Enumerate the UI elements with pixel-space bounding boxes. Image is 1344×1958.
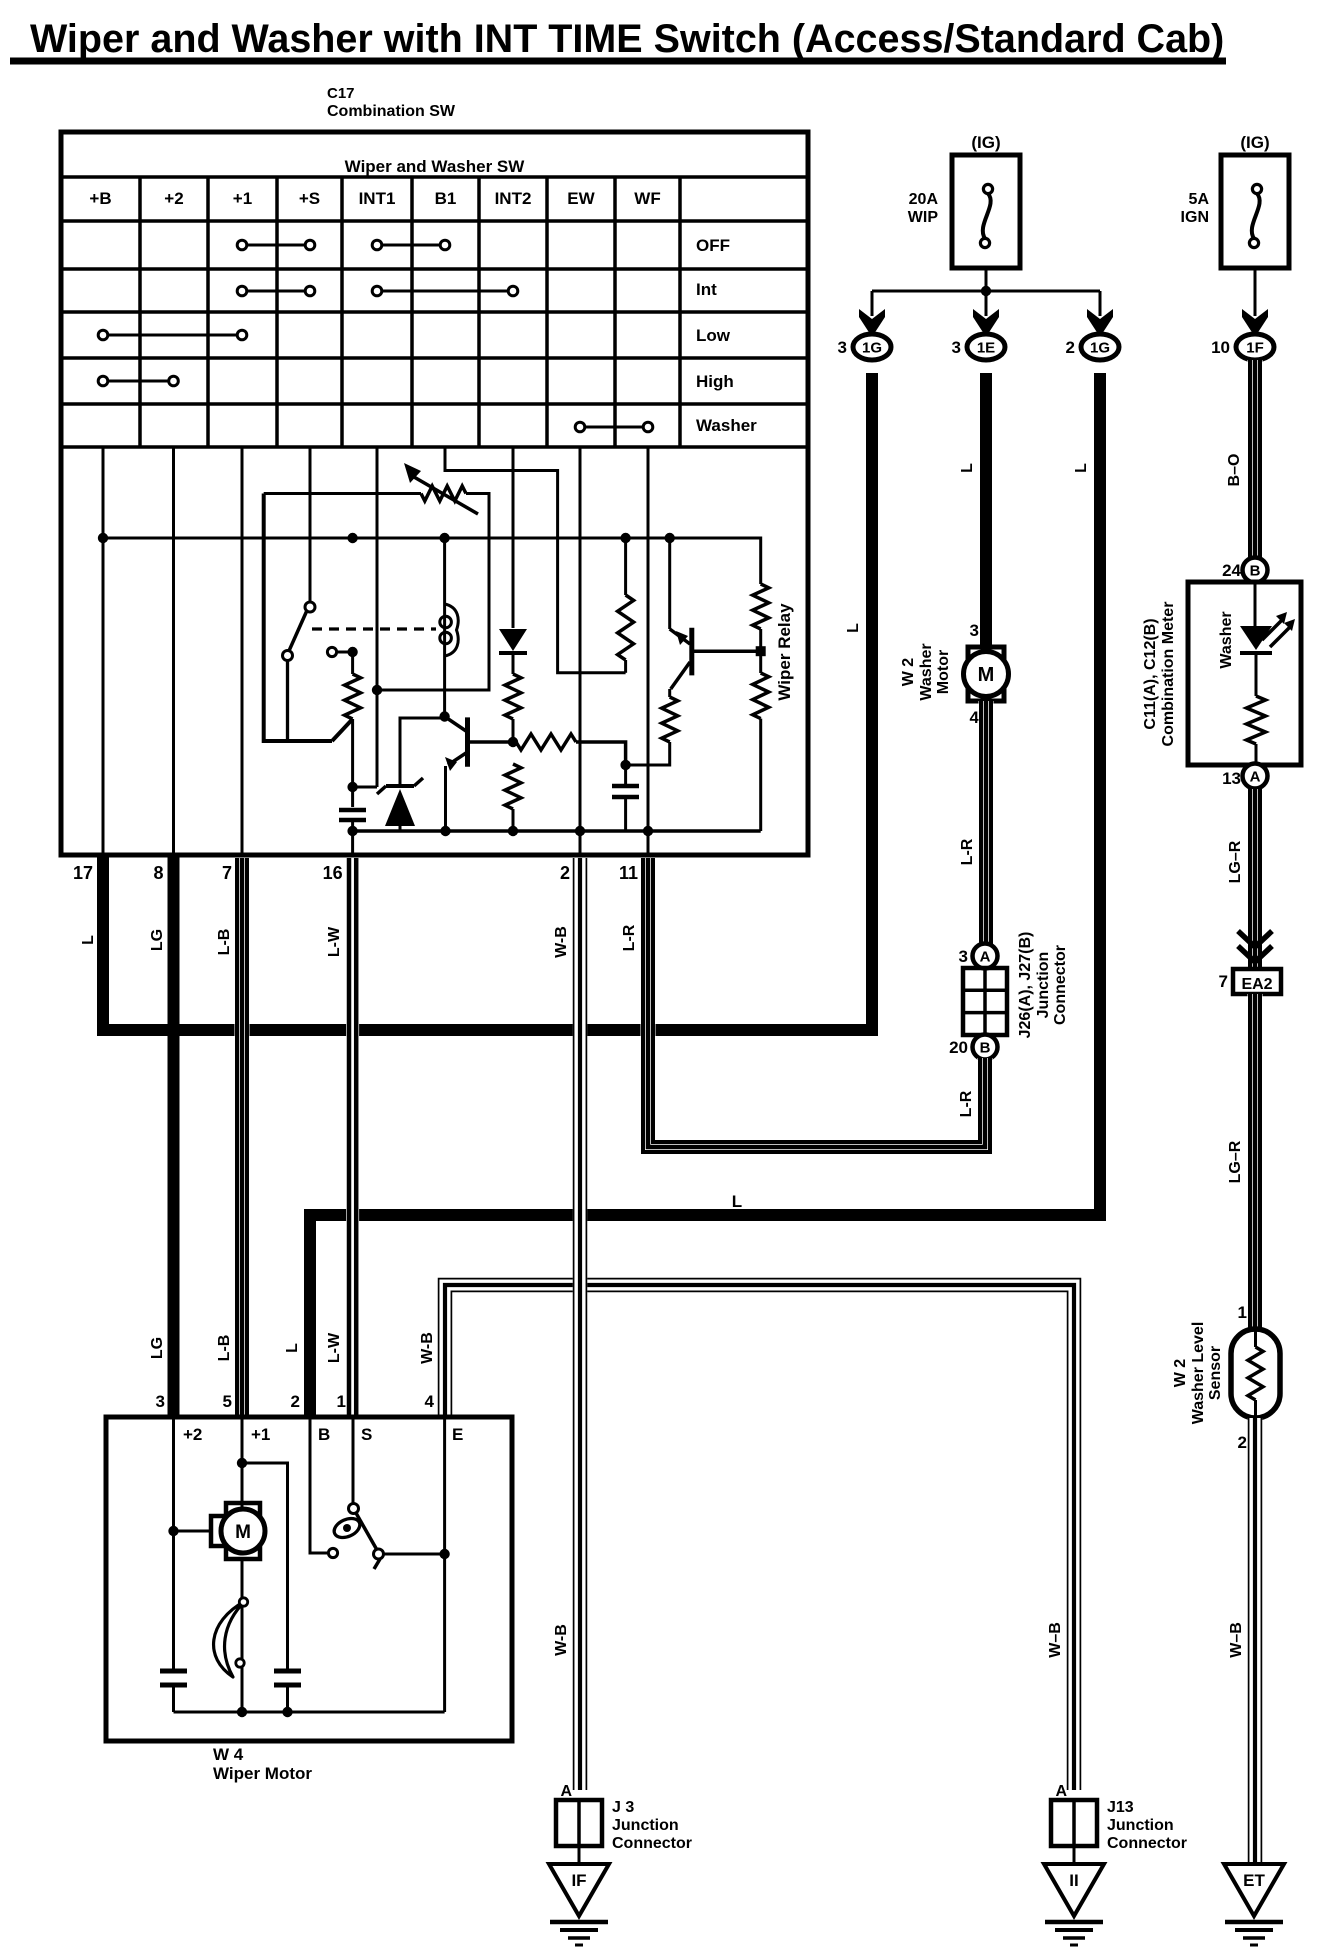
potentiometer VR1 right lead to INT1	[377, 494, 489, 691]
park switch pivot	[349, 1504, 359, 1514]
node bus junction +B	[98, 533, 108, 543]
svg-text:Wiper Relay: Wiper Relay	[775, 603, 794, 701]
svg-text:A: A	[1055, 1783, 1067, 1800]
table column headers	[89, 189, 660, 208]
svg-text:E: E	[452, 1425, 463, 1444]
ground ET	[1224, 1864, 1284, 1945]
svg-text:1: 1	[337, 1392, 346, 1411]
contact link Int INT1 to INT2	[372, 286, 518, 296]
wiper motor W4 box	[106, 1417, 512, 1741]
node bus junction coil line	[439, 533, 449, 543]
combination meter box	[1188, 582, 1301, 765]
svg-text:L: L	[845, 623, 862, 633]
terminal labels wiper motor	[183, 1425, 463, 1444]
svg-text:Int: Int	[696, 280, 717, 299]
svg-text:LG–R: LG–R	[1227, 1140, 1244, 1183]
wire lower link diagonal	[332, 719, 353, 741]
label J3 Junction Connector	[612, 1799, 692, 1852]
relay coil K1 lead upper	[443, 538, 446, 604]
node R4 bottom	[508, 826, 518, 836]
junction connector J3	[556, 1800, 602, 1846]
resistor R7 wiper relay upper	[753, 584, 769, 629]
wire 1F to B	[1248, 360, 1263, 559]
svg-text:INT2: INT2	[495, 189, 532, 208]
svg-text:Washer: Washer	[1218, 611, 1235, 668]
label J13 Junction Connector	[1107, 1799, 1187, 1852]
wire diode to R2b	[512, 651, 515, 674]
svg-text:L-R: L-R	[958, 1090, 975, 1117]
wire L pin17 thick run	[103, 373, 872, 1030]
wire EW column pin 2	[579, 447, 582, 855]
svg-text:8: 8	[153, 863, 163, 883]
resistor R2 pin16 upper	[345, 674, 361, 719]
title underline rule	[10, 58, 1226, 65]
svg-text:W-B: W-B	[553, 1624, 570, 1656]
connector 24 B	[1243, 558, 1268, 583]
wire fixed contact stub	[337, 651, 353, 654]
svg-text:C17: C17	[327, 85, 355, 102]
svg-text:W–B: W–B	[1228, 1622, 1245, 1658]
wire WF column pin 11	[647, 447, 650, 855]
wire Q1 base to R3	[470, 740, 513, 744]
svg-text:Low: Low	[696, 326, 731, 345]
wire R8 to bottom bus	[759, 719, 762, 831]
capacitor C1	[339, 810, 366, 831]
svg-text:Junction: Junction	[1035, 952, 1052, 1019]
svg-text:4: 4	[425, 1392, 435, 1411]
svg-text:1: 1	[1238, 1303, 1247, 1322]
svg-text:L: L	[1073, 463, 1090, 473]
svg-text:10: 10	[1211, 338, 1230, 357]
node INT1 pot junction	[372, 685, 382, 695]
wire bottom bus	[353, 829, 761, 833]
svg-text:+2: +2	[164, 189, 183, 208]
wire EA2 to sensor	[1248, 994, 1263, 1329]
svg-text:5: 5	[223, 1392, 232, 1411]
transistor Q1	[445, 717, 468, 832]
wire Q2 emitter to R6	[668, 689, 671, 697]
mechanical link dashed line	[312, 627, 436, 630]
svg-text:2: 2	[560, 863, 570, 883]
svg-text:L-B: L-B	[216, 929, 233, 956]
relay coil K1	[440, 604, 458, 656]
wire L-W pin16 double	[346, 858, 359, 1417]
arrow to 1G b	[1087, 298, 1113, 337]
wire W-B pin2	[573, 858, 587, 1790]
switch SW1 moving contact	[283, 651, 293, 661]
svg-text:A: A	[1250, 769, 1261, 786]
contact link Washer EW to WF	[575, 422, 653, 432]
wire sensor to ET ground	[1248, 1418, 1262, 1862]
washer LED indicator	[1240, 612, 1295, 653]
wire B1 column jog	[445, 447, 626, 673]
wire A to EA2	[1248, 789, 1263, 971]
svg-text:20A: 20A	[909, 191, 939, 208]
contact link OFF INT1 to B1	[372, 240, 450, 250]
svg-text:IGN: IGN	[1181, 209, 1209, 226]
svg-text:7: 7	[1219, 972, 1228, 991]
wire LG pin8 thick	[168, 855, 180, 1417]
svg-text:J13: J13	[1107, 1799, 1134, 1816]
label W 2 Washer Motor	[900, 643, 952, 700]
svg-text:20: 20	[949, 1038, 968, 1057]
svg-text:L-R: L-R	[959, 838, 976, 865]
svg-text:W-B: W-B	[419, 1332, 436, 1364]
svg-text:1G: 1G	[862, 340, 882, 357]
svg-text:W 2: W 2	[900, 658, 917, 687]
washer level sensor W2	[1231, 1329, 1280, 1418]
capacitor C3	[160, 1671, 187, 1712]
combination switch outer box	[61, 132, 808, 855]
svg-text:Combination SW: Combination SW	[327, 103, 456, 120]
resistor R3 horizontal	[516, 734, 576, 750]
arrow double chevron EA2	[1238, 931, 1272, 962]
wire S internal	[352, 1417, 355, 1504]
wire junction to R6 bottom	[626, 742, 670, 765]
ground IF	[549, 1864, 609, 1945]
svg-text:LG: LG	[149, 1337, 166, 1359]
svg-text:L-W: L-W	[326, 1332, 343, 1363]
pin numbers 17 8 7 16 2 11	[73, 863, 638, 883]
svg-text:Wiper and Washer SW: Wiper and Washer SW	[345, 157, 526, 176]
svg-text:17: 17	[73, 863, 93, 883]
contact B park switch	[328, 1548, 337, 1557]
wire Q2 base	[694, 649, 761, 653]
svg-text:EA2: EA2	[1241, 976, 1272, 993]
resistor in meter	[1247, 696, 1266, 744]
svg-text:EW: EW	[567, 189, 595, 208]
node +1 branch	[237, 1458, 247, 1468]
wire J3 to ground	[578, 1846, 581, 1864]
svg-text:24: 24	[1222, 561, 1241, 580]
svg-text:+B: +B	[89, 189, 111, 208]
label W 2 Washer Level Sensor	[1172, 1322, 1224, 1425]
contact link OFF +1 to +S	[237, 240, 315, 250]
svg-text:7: 7	[222, 863, 232, 883]
junction connector J26 J27	[963, 944, 1007, 1060]
node R7 R8 base junction	[756, 646, 766, 656]
svg-text:WF: WF	[634, 189, 660, 208]
svg-text:L-B: L-B	[216, 1335, 233, 1362]
svg-text:Motor: Motor	[935, 650, 952, 694]
svg-text:L: L	[80, 935, 97, 945]
svg-text:J26(A), J27(B): J26(A), J27(B)	[1017, 932, 1034, 1039]
wire R5 leads	[624, 538, 627, 673]
washer motor W2 M	[964, 647, 1009, 701]
node R3 left junction	[508, 737, 518, 747]
node bottom bus EW	[575, 826, 585, 836]
wire lower link left	[264, 494, 332, 742]
svg-text:3: 3	[838, 338, 847, 357]
connector EA2	[1233, 969, 1281, 994]
svg-text:3: 3	[970, 621, 979, 640]
svg-text:LG: LG	[149, 929, 166, 951]
wire 5A to 1F	[1254, 268, 1257, 306]
connector 3 1G	[853, 334, 891, 360]
wire B internal	[310, 1417, 328, 1553]
label W 4 Wiper Motor	[213, 1745, 312, 1783]
contact link High +B to +2	[98, 376, 178, 386]
svg-text:W-B: W-B	[553, 926, 570, 958]
svg-text:+1: +1	[251, 1425, 270, 1444]
wire bus to R7	[670, 538, 761, 584]
node +2 motor link	[168, 1526, 178, 1536]
wire INT1 column	[376, 447, 379, 787]
wire +S column to switch pivot	[309, 447, 312, 603]
svg-text:S: S	[361, 1425, 372, 1444]
arrow to 1E	[973, 298, 999, 337]
wire labels lower row	[149, 1332, 436, 1364]
arrow to 1G a	[859, 298, 885, 337]
label 5A IGN	[1181, 191, 1210, 226]
wire pin16 lower	[351, 719, 354, 807]
wire +2 to motor	[174, 1530, 212, 1533]
wire +2 internal	[172, 1417, 175, 1669]
wire thick L to wiper motor B	[310, 373, 1100, 1417]
node bus junction resistor R5	[620, 533, 630, 543]
svg-text:B: B	[980, 1040, 991, 1057]
svg-text:3: 3	[156, 1392, 165, 1411]
label C11 C12 Combination Meter	[1142, 602, 1177, 747]
wire labels upper row	[80, 924, 638, 958]
svg-text:4: 4	[970, 708, 980, 727]
svg-text:Sensor: Sensor	[1207, 1346, 1224, 1400]
wire pin16 exit	[351, 831, 354, 855]
resistor R8 wiper relay lower	[753, 673, 769, 719]
svg-text:A: A	[560, 1783, 572, 1800]
svg-text:1E: 1E	[977, 340, 995, 357]
svg-text:2: 2	[1238, 1433, 1247, 1452]
svg-text:WIP: WIP	[908, 209, 939, 226]
svg-text:LG–R: LG–R	[1227, 840, 1244, 883]
svg-text:Washer Level: Washer Level	[1190, 1322, 1207, 1425]
switch SW1 fixed contact	[327, 647, 336, 656]
wire E internal	[443, 1417, 446, 1712]
wire 1E to washer motor	[980, 373, 992, 648]
node E junction	[439, 1549, 449, 1559]
svg-text:B: B	[1250, 563, 1261, 580]
switch SW1 pivot	[305, 602, 315, 612]
svg-text:M: M	[978, 664, 995, 686]
junction connector J13	[1051, 1800, 1097, 1846]
node pin16 switch junction	[347, 647, 357, 657]
wire W-B wiper motor E run	[439, 1279, 1081, 1790]
wire pin16 mid	[351, 652, 354, 674]
wire INT2 column	[512, 447, 515, 628]
wire fuse output split	[872, 268, 1100, 306]
label C17 / Combination SW	[327, 85, 456, 120]
svg-text:C11(A), C12(B): C11(A), C12(B)	[1142, 618, 1159, 729]
svg-text:INT1: INT1	[359, 189, 396, 208]
wire resistor to A	[1255, 744, 1258, 767]
parking cam crescent	[214, 1598, 248, 1677]
svg-text:Wiper Motor: Wiper Motor	[213, 1764, 312, 1783]
svg-text:W–B: W–B	[1047, 1622, 1064, 1658]
svg-text:Combination Meter: Combination Meter	[1160, 602, 1177, 747]
svg-text:L-R: L-R	[621, 924, 638, 951]
wire +2 column pin 8	[172, 447, 175, 855]
pin numbers wiper motor	[156, 1392, 435, 1411]
svg-text:(IG): (IG)	[1240, 133, 1269, 152]
resistor R4	[505, 764, 521, 809]
svg-text:3: 3	[959, 947, 968, 966]
table grid lines	[61, 177, 808, 447]
park switch cam oval	[331, 1515, 363, 1542]
wire washer motor to A	[979, 701, 994, 944]
wire L-B pin7 triple	[235, 858, 250, 1417]
svg-text:W 2: W 2	[1172, 1359, 1189, 1388]
node pin16 bottom bus	[347, 826, 357, 836]
wire J13 to ground	[1073, 1846, 1076, 1864]
svg-text:Wiper and Washer with INT TIME: Wiper and Washer with INT TIME Switch (A…	[30, 17, 1224, 61]
wire L-R pin11 triple run	[643, 858, 990, 1152]
svg-text:Washer: Washer	[918, 643, 935, 700]
node bottom bus WF	[643, 826, 653, 836]
svg-text:Connector: Connector	[1052, 945, 1069, 1025]
fuse 20A WIP	[952, 155, 1020, 268]
wire motor to cam	[241, 1559, 244, 1712]
wire bottom bus W4	[174, 1711, 445, 1714]
transistor Q2	[670, 538, 692, 689]
ground II	[1044, 1864, 1104, 1945]
svg-text:+S: +S	[299, 189, 320, 208]
node bus junction pin16 line	[347, 533, 357, 543]
wire INT1 to pin16 junction	[353, 786, 377, 789]
resistor R6	[662, 697, 678, 742]
wire LED to resistor	[1255, 653, 1258, 696]
wire B to L-R corner	[978, 1058, 993, 1066]
wire contact to E	[384, 1553, 445, 1556]
diode D1	[499, 629, 527, 653]
node pin16 jog junction	[347, 782, 357, 792]
svg-text:L: L	[959, 463, 976, 473]
svg-text:11: 11	[619, 863, 638, 883]
park switch contact	[374, 1549, 384, 1559]
node bus junction transistor Q2	[665, 533, 675, 543]
label J26 J27 Junction Connector	[1017, 932, 1069, 1039]
wire R4 to bus	[512, 809, 515, 831]
svg-text:L: L	[732, 1192, 742, 1211]
svg-text:3: 3	[952, 338, 961, 357]
connector 2 1G	[1081, 334, 1119, 360]
svg-text:M: M	[235, 1522, 251, 1543]
connector 3 1E	[967, 334, 1005, 360]
svg-text:IF: IF	[571, 1871, 586, 1890]
svg-text:High: High	[696, 372, 734, 391]
svg-text:A: A	[980, 949, 991, 966]
node bus C4	[282, 1707, 292, 1717]
resistor R2b below diode	[505, 674, 521, 719]
wire +1 internal	[241, 1417, 244, 1509]
wire R7 to junction	[759, 629, 762, 673]
wire +B column pin 17	[102, 447, 105, 855]
wire switch contact down	[286, 661, 289, 742]
wire coil to Q1 collector	[443, 656, 446, 712]
wire +1 column pin 7	[241, 447, 244, 855]
svg-text:1F: 1F	[1246, 340, 1264, 357]
svg-text:Junction: Junction	[1107, 1817, 1174, 1834]
svg-text:(IG): (IG)	[971, 133, 1000, 152]
park switch arm	[356, 1513, 380, 1569]
node Q1 emitter bottom	[440, 826, 450, 836]
svg-text:+1: +1	[233, 189, 252, 208]
potentiometer VR1	[421, 486, 466, 501]
contact link Int +1 to +S	[237, 286, 315, 296]
svg-text:OFF: OFF	[696, 236, 730, 255]
arrow to 1F	[1242, 298, 1268, 337]
contact link Low +B to +1	[98, 330, 247, 340]
wire branch to C4	[242, 1463, 288, 1669]
potentiometer VR1 arrow	[404, 463, 478, 514]
svg-text:5A: 5A	[1189, 191, 1210, 208]
node bus +1	[237, 1707, 247, 1717]
zener diode ZD1	[377, 717, 423, 832]
svg-text:13: 13	[1222, 769, 1241, 788]
svg-text:2: 2	[1066, 338, 1075, 357]
svg-text:B: B	[318, 1425, 330, 1444]
node center junction	[620, 760, 630, 770]
svg-text:16: 16	[323, 863, 343, 883]
svg-text:B1: B1	[435, 189, 457, 208]
connector 13 A	[1243, 764, 1268, 789]
capacitor C2	[612, 765, 639, 831]
svg-text:ET: ET	[1243, 1871, 1265, 1890]
svg-text:1G: 1G	[1090, 340, 1110, 357]
wire R3 to corner	[576, 742, 626, 765]
svg-text:2: 2	[291, 1392, 300, 1411]
svg-text:J 3: J 3	[612, 1799, 634, 1816]
svg-text:Junction: Junction	[612, 1817, 679, 1834]
svg-text:L: L	[284, 1343, 301, 1353]
wire horizontal bus	[103, 537, 761, 540]
wire B to LED	[1254, 581, 1257, 626]
potentiometer VR1 left lead	[264, 492, 421, 495]
svg-text:Washer: Washer	[696, 416, 757, 435]
switch SW1 arm	[289, 612, 307, 651]
capacitor C4	[274, 1671, 301, 1712]
svg-text:Connector: Connector	[1107, 1835, 1187, 1852]
wire zener top link	[400, 717, 445, 720]
svg-text:II: II	[1069, 1871, 1078, 1890]
connector 10 1F	[1236, 334, 1274, 360]
resistor R5	[618, 595, 634, 660]
label 20A WIP	[908, 191, 939, 226]
node Q1 collector junction	[439, 711, 449, 721]
wire R2b to base node	[512, 719, 515, 742]
svg-text:L-W: L-W	[326, 926, 343, 957]
fuse 5A IGN	[1221, 155, 1289, 268]
svg-text:+2: +2	[183, 1425, 202, 1444]
table row labels	[696, 236, 757, 435]
svg-text:Connector: Connector	[612, 1835, 692, 1852]
wiper motor M	[211, 1503, 265, 1559]
svg-text:W 4: W 4	[213, 1745, 244, 1764]
svg-text:B–O: B–O	[1226, 454, 1243, 487]
